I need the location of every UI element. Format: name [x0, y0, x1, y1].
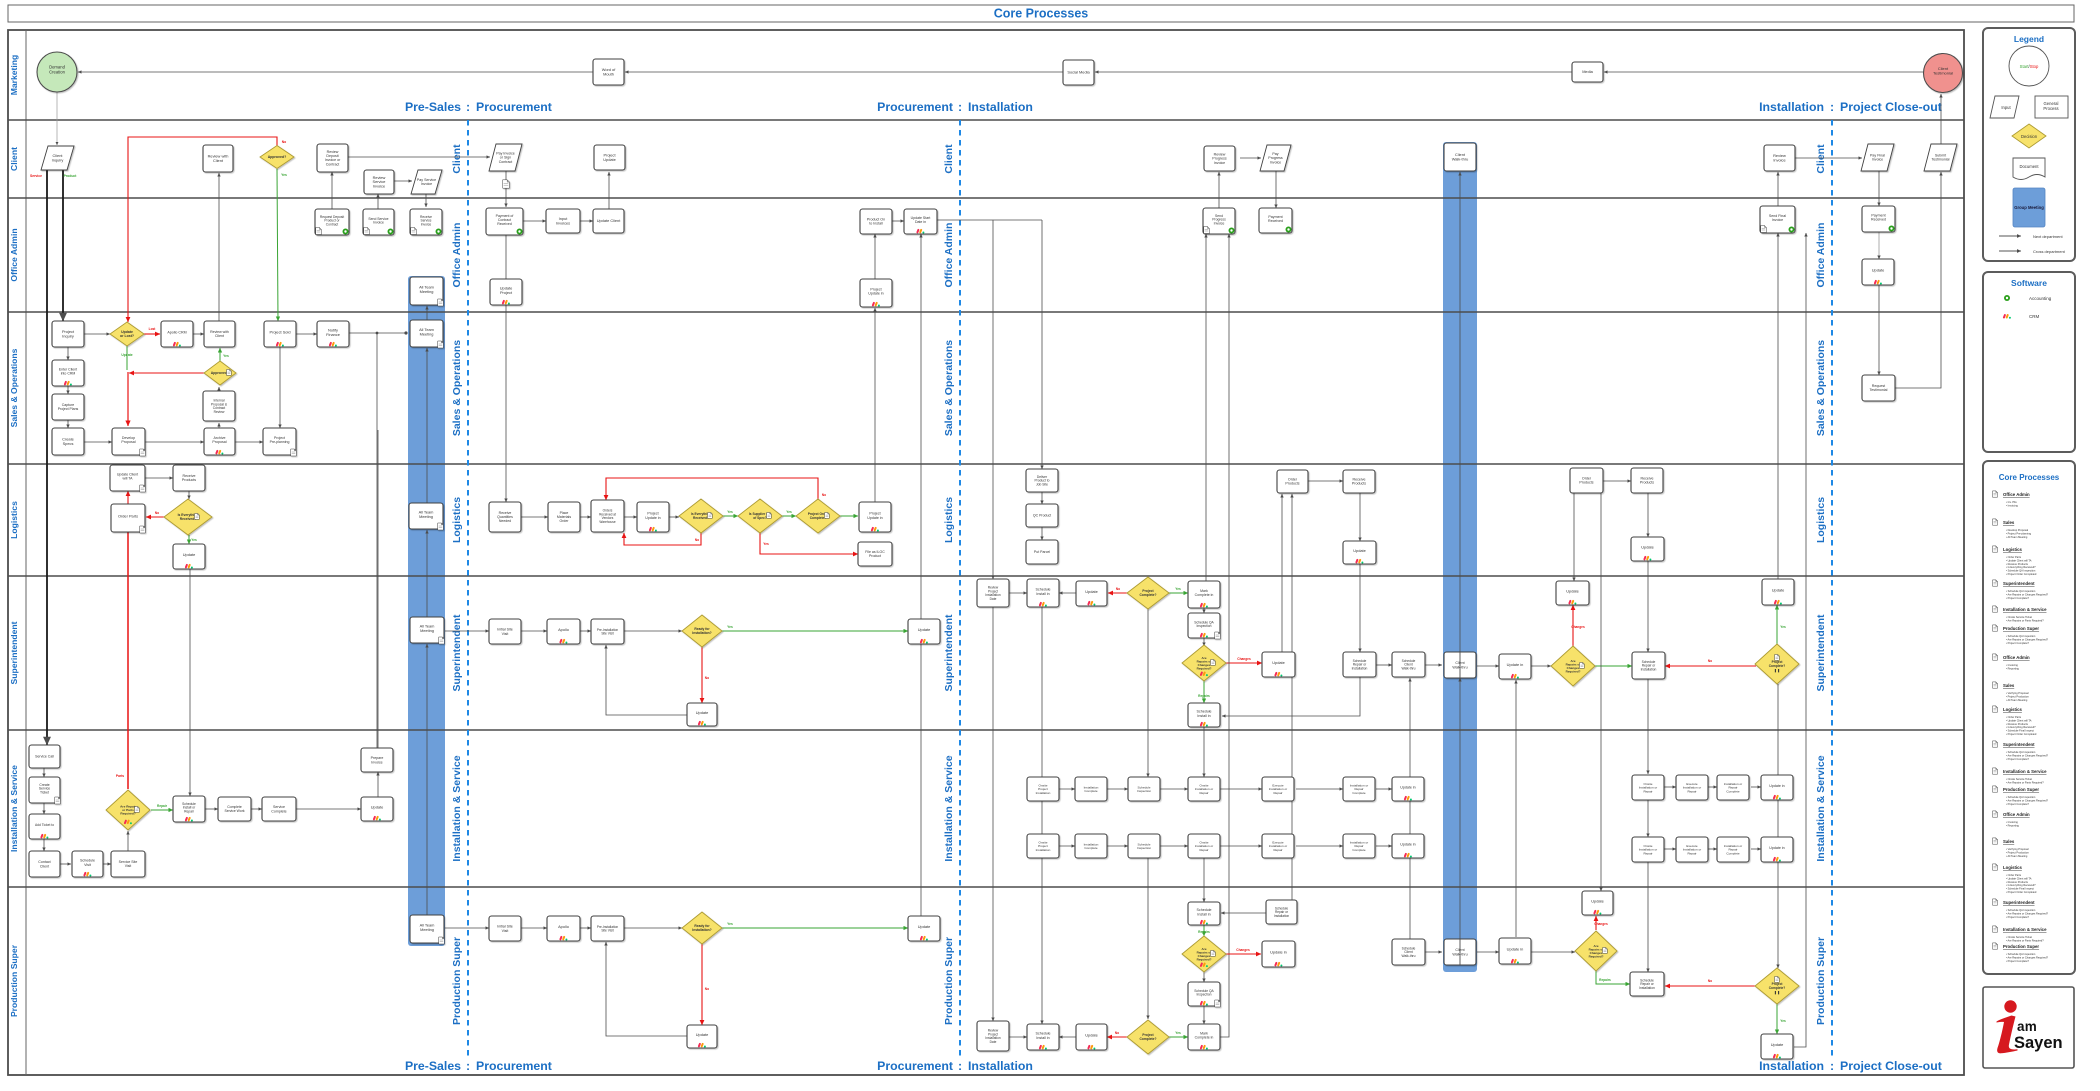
wire: Update loop PS — [606, 942, 687, 1036]
decision: Are Repair or Parts Required? — [106, 790, 150, 830]
svg-text:Document: Document — [2019, 164, 2039, 169]
wire: Schedule to Complete Work — [205, 808, 218, 810]
wire: Review Service to Pay Service — [394, 180, 412, 182]
svg-text:Media: Media — [1582, 69, 1593, 74]
svg-text:• Reporting: • Reporting — [2006, 666, 2019, 670]
process: Update Start Date in — [904, 209, 937, 234]
process: Orders Received at Vendors Warehouse — [591, 500, 624, 532]
wire: Develop to Archive Proposal — [145, 441, 204, 443]
wire: Order to Receive right — [1603, 480, 1631, 482]
wire: Submit Testimonial to Client Testimonial — [1940, 94, 1942, 144]
process: Update — [1631, 537, 1664, 561]
svg-text:Office Admin: Office Admin — [9, 228, 19, 281]
wire: Approved No loop — [128, 137, 277, 322]
lane divider y=887 — [8, 886, 1964, 888]
svg-text:ScheduleInstall in: ScheduleInstall in — [1036, 588, 1051, 596]
process: Review Progress Invoice — [1204, 146, 1235, 171]
svg-text:• Invoicing: • Invoicing — [2006, 663, 2018, 667]
wire: PS Schedule Repair to Schedule Install — [1221, 912, 1267, 914]
svg-text:Sales & Operations: Sales & Operations — [9, 348, 19, 427]
wire: row — [1160, 788, 1188, 790]
svg-text:Update: Update — [371, 805, 384, 810]
svg-text:• Project Order Completed: • Project Order Completed — [2006, 732, 2037, 736]
wire: bar2 line overlay through Client Walk-thru boxes — [1459, 652, 1461, 965]
svg-text:Repairs: Repairs — [1198, 930, 1210, 934]
core process entry: Superintendent — [1993, 899, 1998, 905]
wire: PS Mark Complete up to Send Progress Invoice — [1219, 234, 1229, 1037]
svg-text:• Inv. Plts: • Inv. Plts — [2006, 500, 2017, 504]
svg-text:Decision: Decision — [2021, 134, 2038, 139]
svg-text:Logistics: Logistics — [2003, 547, 2022, 552]
process: Service Complete — [262, 797, 296, 821]
wire: Create Ticket down — [43, 803, 45, 814]
wire: Project Update to Product On — [874, 234, 876, 280]
wire: Apollo to Pre-Installation — [580, 630, 591, 632]
process: Deliver Product to Job Site — [1026, 469, 1058, 492]
process: Project Update in — [637, 502, 669, 532]
wire: Input Invoices to Update Client — [580, 220, 593, 222]
wire: Review Progress to Pay Progress — [1240, 157, 1261, 159]
process: Social Media — [1063, 60, 1094, 85]
svg-text:• Develop Proposal: • Develop Proposal — [2006, 528, 2029, 532]
wire: Schedule Visit to Site Visit — [103, 863, 111, 865]
wire: Project Sold down to Pre-planning — [279, 347, 281, 428]
wire: down to Review Project Installation Date — [992, 220, 994, 579]
wire: Repairs to Schedule Repair — [1595, 665, 1632, 667]
svg-text:CreateSpecs: CreateSpecs — [62, 437, 74, 446]
software accounting icon — [2004, 295, 2010, 301]
wire: Apollo to Pre-Installation PS — [580, 927, 591, 929]
process: Update in — [1392, 834, 1424, 858]
process: Installation or Repair Complete — [1717, 837, 1749, 862]
wire: Schedule Repair to Schedule Walkthru — [1376, 664, 1392, 666]
process: Project Update in — [859, 502, 891, 532]
svg-text:Sales: Sales — [2003, 683, 2015, 688]
svg-text:Client: Client — [9, 147, 19, 171]
svg-text:Approved?: Approved? — [268, 155, 286, 159]
iamSayen logo panel — [1983, 987, 2074, 1068]
process: Update — [908, 619, 940, 644]
svg-text:ClientInquiry: ClientInquiry — [52, 153, 64, 162]
process: Project Update in — [860, 279, 892, 307]
svg-text:• Are Repairs or Changes Requi: • Are Repairs or Changes Required? — [2006, 911, 2049, 915]
wire: Project Complete No to Schedule Repair — [1665, 665, 1756, 667]
wire: row r — [1708, 848, 1717, 850]
svg-text:Next department: Next department — [2033, 234, 2063, 239]
wire: bar1 Superintendent to Logistics — [426, 530, 428, 617]
process: Schedule QA Inspection — [1188, 613, 1220, 639]
wire: OfficeAdmin branch right — [936, 219, 1042, 221]
svg-text:• Project Complete?: • Project Complete? — [2006, 802, 2030, 806]
svg-text:Product Onto Install: Product Onto Install — [867, 218, 885, 226]
wire: PS Update in to diamond — [1531, 951, 1575, 953]
wire: PS Update up to Send Final Invoice — [1794, 233, 1806, 1047]
process: File as ILOC Product — [858, 542, 892, 566]
lane divider y=198 — [8, 197, 1964, 199]
wire: Schedule Install to Onsite row A — [1203, 726, 1205, 777]
svg-text:Superintendent: Superintendent — [1815, 614, 1827, 692]
process: Review Project Installation Date — [977, 579, 1009, 607]
process: Schedule Repair or Installation — [1343, 652, 1376, 677]
svg-text:• Verifying Proposal: • Verifying Proposal — [2006, 847, 2029, 851]
svg-text:Logistics: Logistics — [9, 501, 19, 539]
wire: Yes to Project Order Complete — [781, 515, 796, 517]
svg-text:Production Super: Production Super — [2003, 787, 2039, 792]
wire: Repairs to Schedule Install — [1203, 680, 1205, 703]
svg-text:Logistics: Logistics — [2003, 707, 2022, 712]
svg-text:• Project Pre-planning: • Project Pre-planning — [2006, 531, 2032, 535]
wire: Ready Yes to Update PS — [721, 927, 908, 929]
process: Schedule Install in — [1188, 902, 1220, 925]
process: Update — [908, 916, 940, 941]
process: Put Parcel — [1026, 540, 1058, 564]
end node: Client Testimonial — [1924, 54, 1963, 93]
svg-text:• Schedule QA Inspection: • Schedule QA Inspection — [2006, 795, 2036, 799]
wire: Pay Invoice down to Payment of Contract — [505, 171, 507, 207]
svg-text:Superintendent: Superintendent — [9, 621, 19, 684]
wire: row B to PS Schedule Repair right — [1647, 862, 1649, 972]
legend group meeting — [2013, 188, 2045, 227]
svg-text:Logistics: Logistics — [1815, 497, 1827, 543]
svg-text:Update: Update — [1566, 589, 1579, 594]
svg-text:ReceiveProducts: ReceiveProducts — [1352, 478, 1366, 486]
wire: Review Invoice to Pay Final — [1794, 157, 1862, 159]
svg-text:• Project Order Completed: • Project Order Completed — [2006, 572, 2037, 576]
wire: Update Client TA to Receive Products — [145, 477, 173, 479]
svg-text:Project Close-out: Project Close-out — [1840, 1059, 1942, 1073]
wire: Schedule Repair up to Order Products mid — [1291, 494, 1293, 900]
wire: Approved Yes to Project Sold — [277, 169, 278, 321]
svg-text:Pre-Sales: Pre-Sales — [405, 1059, 461, 1073]
process: Receive Products — [1631, 468, 1663, 493]
svg-text:Apollo: Apollo — [558, 924, 569, 929]
wire: Project Inquiry to Update or Lost — [84, 333, 110, 335]
wire: red to Update Client TA — [127, 491, 129, 504]
svg-text:Accounting: Accounting — [2029, 296, 2052, 301]
svg-text:Update: Update — [1641, 545, 1654, 550]
wire: stub — [46, 744, 48, 746]
svg-text:Installation: Installation — [968, 1059, 1033, 1073]
wire: Update down to Schedule Install or Repair — [189, 569, 191, 796]
wire: red Order Parts to Are Repair diamond — [127, 532, 129, 789]
svg-text:Installation & Service: Installation & Service — [2003, 607, 2047, 612]
process: Schedule Install or Repair — [173, 796, 205, 822]
legend next department arrow — [1999, 235, 2021, 237]
process: All Team Meeting — [410, 277, 443, 306]
svg-text:• Schedule Final Inspect: • Schedule Final Inspect — [2006, 887, 2034, 891]
process: Schedule Repair or Installation — [1632, 652, 1665, 679]
svg-text:• Update Client will TA: • Update Client will TA — [2006, 558, 2032, 562]
group meeting bar: Client Walk-thru — [1443, 142, 1477, 972]
svg-text:Client: Client — [1815, 144, 1827, 174]
wire: Mark Complete to QA — [1203, 608, 1205, 613]
svg-text:• Update Client will TA: • Update Client will TA — [2006, 718, 2032, 722]
core process entry: Office Admin — [1993, 811, 1998, 817]
decision: Are Repairs or Changes Required? — [1551, 646, 1595, 686]
svg-text:• Project Production: • Project Production — [2006, 694, 2029, 698]
process: Installation Complete — [1075, 834, 1107, 858]
svg-text:• Are Repairs or Changes Requi: • Are Repairs or Changes Required? — [2006, 637, 2049, 641]
process: Update in — [1761, 775, 1793, 800]
wire: Send Final up to Review Invoice — [1777, 172, 1779, 207]
core process entry: Superintendent — [1993, 580, 1998, 586]
wire: No to Update PS — [1107, 1036, 1127, 1038]
wire: row — [1220, 845, 1262, 847]
wire: PS Project Complete No — [1665, 985, 1756, 987]
wire: Schedule Install chain down — [1041, 606, 1043, 1024]
svg-text:Procurement: Procurement — [476, 1059, 552, 1073]
wire: Complete to Service Complete — [251, 808, 262, 810]
svg-text:All TeamMeeting: All TeamMeeting — [419, 285, 434, 294]
svg-text:Core Processes: Core Processes — [1999, 473, 2060, 482]
process: Schedule Install in — [1188, 703, 1220, 727]
process: Review with Client — [203, 145, 233, 172]
process: Request Testimonial — [1862, 375, 1895, 401]
svg-text:Ready forInstallation?: Ready forInstallation? — [692, 627, 711, 635]
process: Notify Finance — [317, 321, 349, 347]
process: All Team Meeting — [410, 617, 444, 644]
input/output: Client Inquiry — [41, 146, 74, 170]
wire: Is Everything No to Order Parts — [146, 516, 164, 518]
process: Schedule Inspection — [1128, 777, 1160, 801]
svg-text:Order Parts: Order Parts — [118, 514, 138, 519]
svg-text:Sayen: Sayen — [2014, 1034, 2063, 1052]
wire: Update to Request Testimonial — [1878, 285, 1880, 375]
lane divider y=464 — [8, 463, 1964, 465]
legend input — [1990, 96, 2019, 118]
svg-text:Superintendent: Superintendent — [943, 614, 955, 692]
core process entry: Logistics — [1993, 706, 1998, 712]
wire: Update to Schedule Install — [1059, 592, 1077, 594]
wire: long up to Update Start Date — [920, 234, 922, 916]
svg-text:• Are Repairs or Changes Requi: • Are Repairs or Changes Required? — [2006, 592, 2049, 596]
process: Mark Complete in — [1188, 581, 1220, 608]
wire: diamond down to Schedule Inspection — [1147, 608, 1149, 777]
process: Client Walk-thru — [1444, 652, 1476, 678]
wire: Ready Yes to Update — [721, 630, 908, 632]
process: Update Client will TA — [110, 465, 145, 492]
core process entry: Installation & Service — [1993, 926, 1998, 932]
svg-text:ScheduleRepair orInstallation: ScheduleRepair orInstallation — [1639, 978, 1655, 990]
wire: Yes to Project Update in — [840, 515, 858, 517]
process: Update in — [1392, 777, 1424, 801]
svg-text:Update: Update — [918, 627, 931, 632]
svg-text:No: No — [155, 511, 159, 515]
wire: Contact to Schedule Visit — [60, 863, 71, 865]
process: Execute Installation or Repair — [1676, 837, 1708, 862]
svg-text:Software: Software — [2011, 278, 2047, 288]
core process entry: Office Admin — [1993, 491, 1998, 497]
svg-text:Update: Update — [696, 1032, 709, 1037]
svg-text:Add Ticket to: Add Ticket to — [35, 823, 54, 827]
process: Update — [173, 544, 205, 569]
svg-text:• Schedule QA Inspection: • Schedule QA Inspection — [2006, 589, 2036, 593]
svg-text:Sales: Sales — [2003, 839, 2015, 844]
svg-text:Update: Update — [1272, 660, 1285, 665]
process: Contact Client — [29, 851, 60, 877]
process: Internal Proposal & Contract Review — [203, 391, 235, 421]
process: Input Invoices — [546, 209, 580, 233]
svg-text:Office Admin: Office Admin — [2003, 492, 2030, 497]
process: Receive Quantities Needed — [489, 502, 521, 532]
svg-text:• All Team Meeting: • All Team Meeting — [2006, 535, 2028, 539]
svg-text:No: No — [705, 987, 709, 991]
software panel — [1983, 272, 2075, 452]
svg-text:• Is Everything Received?: • Is Everything Received? — [2006, 883, 2036, 887]
svg-text:• Project Complete?: • Project Complete? — [2006, 959, 2030, 963]
wire: Project Inquiry down — [67, 347, 69, 360]
svg-text:Production Super: Production Super — [943, 937, 955, 1025]
wire: Add Ticket down — [43, 839, 45, 851]
wire: bar1 S&O to OfficeAdmin — [426, 306, 428, 321]
svg-text:Logistics: Logistics — [2003, 865, 2022, 870]
wire: Pay Progress down to Payment Received — [1275, 171, 1277, 208]
wire: Service Call down — [43, 768, 45, 777]
wire: Deliver to QC — [1041, 492, 1043, 504]
svg-text:Yes: Yes — [281, 173, 287, 177]
svg-text:• Order Parts: • Order Parts — [2006, 555, 2022, 559]
svg-text:ContactClient: ContactClient — [38, 860, 50, 868]
wire: bar2 PS to Superintendent — [1459, 678, 1461, 940]
process: Payment Received — [1862, 206, 1895, 232]
svg-text:No: No — [1116, 587, 1120, 591]
svg-text:Project Sold: Project Sold — [270, 330, 291, 335]
decision: Project Complete? — [1755, 644, 1799, 684]
svg-text:Changes: Changes — [1594, 922, 1608, 926]
svg-text:• Schedule QA Inspection: • Schedule QA Inspection — [2006, 634, 2036, 638]
svg-text:• Project Complete?: • Project Complete? — [2006, 915, 2030, 919]
wire: Receive Products to Is Everything Received — [188, 491, 190, 499]
core process entry: Installation & Service — [1993, 768, 1998, 774]
svg-text:Logistics: Logistics — [451, 497, 463, 543]
svg-text:All TeamMeeting: All TeamMeeting — [419, 510, 434, 519]
wire: Update up to Order Products right — [1573, 493, 1575, 581]
process: Complete Service Work — [218, 797, 251, 821]
wire: bar1 to Initial Site Visit — [445, 630, 489, 632]
svg-text:• Schedule QA Inspection: • Schedule QA Inspection — [2006, 750, 2036, 754]
wire: Supplier Yes to File as ILOC — [760, 532, 858, 554]
svg-text:Repairs: Repairs — [1599, 978, 1611, 982]
svg-text:InstallationComplete: InstallationComplete — [1084, 842, 1099, 850]
svg-text:Office Admin: Office Admin — [1815, 223, 1827, 288]
wire: row — [1296, 845, 1343, 847]
process: Update — [687, 1025, 717, 1048]
svg-text:• Schedule QA Inspection: • Schedule QA Inspection — [2006, 569, 2036, 573]
process: Create Specs — [52, 428, 84, 455]
svg-text:• Update Client will TA: • Update Client will TA — [2006, 876, 2032, 880]
title bar — [8, 5, 2074, 22]
wire: Approved Yes up — [219, 348, 221, 362]
svg-text:• Order Parts: • Order Parts — [2006, 873, 2022, 877]
process: Archive Proposal — [204, 428, 235, 455]
wire: Pre-Installation to Ready diamond — [624, 630, 682, 632]
wire: row — [1376, 788, 1392, 790]
svg-text:Social Media: Social Media — [1067, 70, 1090, 75]
svg-text:Update: Update — [121, 353, 132, 357]
svg-text:• Reporting: • Reporting — [2006, 823, 2019, 827]
legend general process — [2035, 96, 2068, 118]
svg-text:• Are Repairs or Changes Requi: • Are Repairs or Changes Required? — [2006, 753, 2049, 757]
input/output: Pay Service Invoice — [411, 170, 442, 194]
wire: Pre-Installation to Ready PS — [624, 927, 682, 929]
svg-text:Yes: Yes — [191, 538, 197, 542]
svg-text:Update Client: Update Client — [597, 218, 621, 223]
svg-text:ScheduleInstall in: ScheduleInstall in — [1197, 710, 1212, 718]
wire: Orders Received to Project Update — [624, 516, 637, 518]
phase divider x=468 — [467, 120, 469, 1056]
process: Update in — [1499, 938, 1531, 964]
svg-text:Production Super: Production Super — [1815, 937, 1827, 1025]
process: Update — [1556, 581, 1589, 605]
svg-text:am: am — [2017, 1019, 2037, 1034]
svg-text:ScheduleRepair orInstallation: ScheduleRepair orInstallation — [1352, 659, 1368, 671]
svg-text:Enter Clientinto CRM: Enter Clientinto CRM — [59, 368, 77, 376]
phase divider x=960 — [959, 120, 961, 1056]
svg-text:• Receive Products: • Receive Products — [2006, 722, 2029, 726]
svg-text:• Project Production: • Project Production — [2006, 850, 2029, 854]
wire: Product On to Update Start Date — [892, 220, 904, 222]
process: Client Walk-thru — [1444, 143, 1476, 171]
svg-text:Update in: Update in — [1400, 843, 1415, 847]
decision: Project Complete? — [1127, 577, 1169, 609]
svg-text:Pre-Sales: Pre-Sales — [405, 100, 461, 114]
svg-text:• Onsite Service Ticket: • Onsite Service Ticket — [2006, 935, 2032, 939]
svg-text:ScheduleInstall in: ScheduleInstall in — [1197, 908, 1212, 916]
svg-text:ProjectUpdate in: ProjectUpdate in — [868, 288, 883, 296]
svg-text:Sales: Sales — [2003, 520, 2015, 525]
svg-text:Yes: Yes — [223, 354, 229, 358]
core process entry: Installation & Service — [1993, 606, 1998, 612]
svg-text:Update in: Update in — [1507, 662, 1524, 667]
wire: row B to PS Schedule Install — [1203, 857, 1205, 902]
legend document — [2013, 158, 2045, 180]
process: Order Parts — [111, 504, 145, 533]
process: Receive Service Invoice — [410, 209, 442, 235]
input/output: Pay Final Invoice — [1861, 144, 1894, 171]
svg-text:RequestTestimonial: RequestTestimonial — [1870, 384, 1888, 392]
svg-text:Lost: Lost — [149, 327, 157, 331]
svg-text:Update: Update — [1085, 589, 1098, 594]
svg-text::: : — [1830, 1059, 1834, 1073]
process: Review Project Installation Date — [977, 1021, 1009, 1051]
decision: Project Complete? — [1755, 968, 1799, 1004]
wire: Receive Materials to Place Order — [521, 516, 548, 518]
svg-text:• Is Everything Received?: • Is Everything Received? — [2006, 565, 2036, 569]
wire: row r — [1751, 848, 1761, 850]
svg-text:Procurement: Procurement — [877, 100, 953, 114]
wire: Internal Proposal up to Approved diamond — [218, 387, 220, 392]
wire: PS diamond to QA — [1203, 971, 1205, 982]
core process entry: Sales — [1993, 682, 1998, 688]
process: Installation or Repair Complete — [1343, 834, 1375, 858]
svg-text:No: No — [1708, 659, 1712, 663]
wire: PS Update in up to Update in — [1515, 680, 1517, 937]
process: Prepare Invoice — [361, 748, 393, 772]
lane divider y=730 — [8, 729, 1964, 731]
process: Initial Site Visit — [489, 619, 521, 644]
svg-text:ProjectUpdate: ProjectUpdate — [603, 153, 616, 162]
svg-text:ScheduleInspection: ScheduleInspection — [1137, 842, 1151, 850]
wire: Request to Submit Testimonial — [1895, 172, 1941, 388]
process: Update Client — [593, 209, 624, 233]
svg-text:• Order Parts: • Order Parts — [2006, 715, 2022, 719]
svg-text::: : — [466, 1059, 470, 1073]
process: Apollo — [547, 619, 580, 644]
wire: Word of Mouth to Demand Creation — [78, 71, 593, 73]
process: Review with Client — [204, 321, 235, 347]
process: Onsite Project Installation — [1027, 834, 1059, 858]
svg-text:DevelopProposal: DevelopProposal — [121, 436, 135, 444]
